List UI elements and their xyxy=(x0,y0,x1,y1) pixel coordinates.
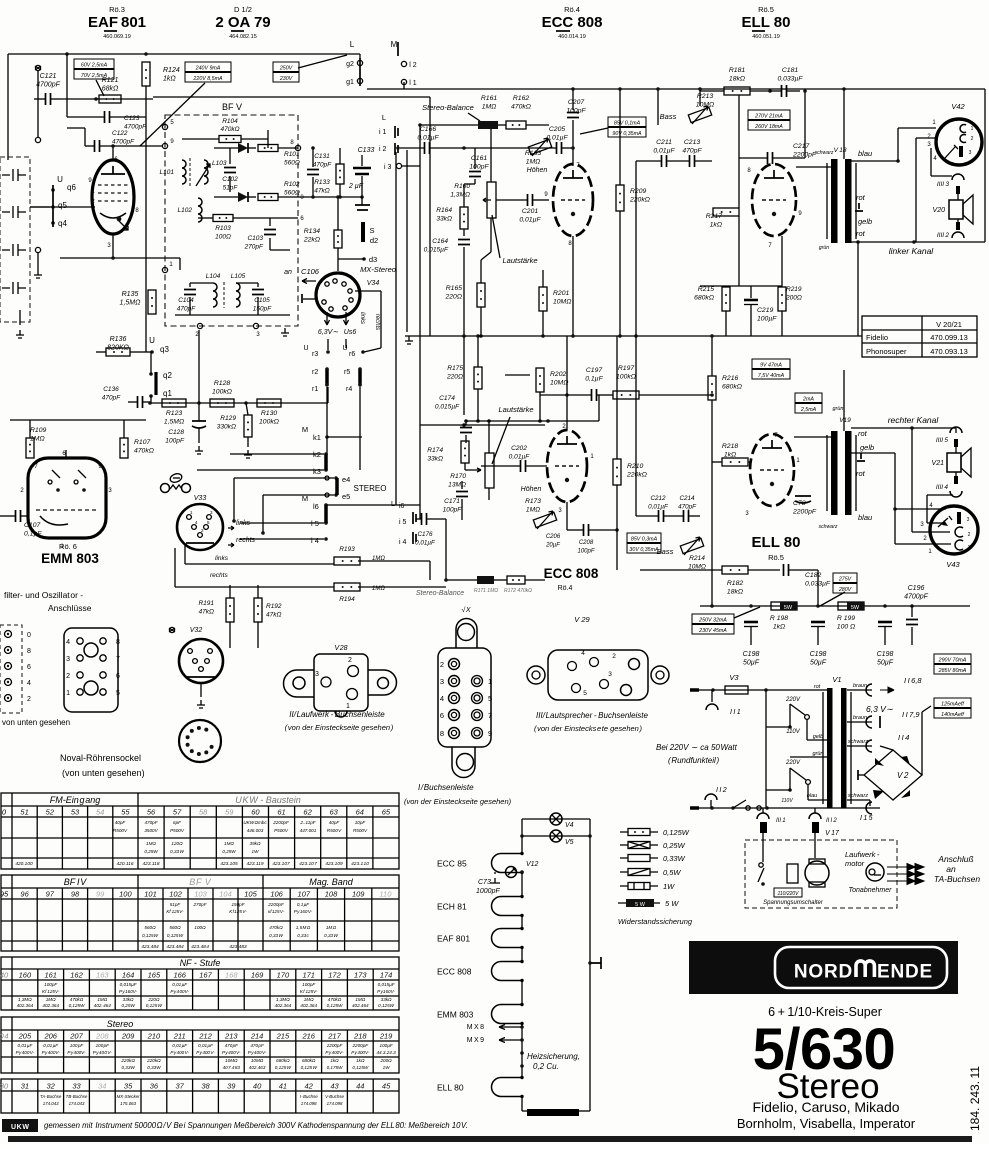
wire i2 drop xyxy=(406,150,408,332)
junction xyxy=(520,834,524,838)
svg-text:q2: q2 xyxy=(163,371,172,380)
svg-text:filter- und Oszillat or -: filter- und Oszillat or - xyxy=(4,590,83,600)
wire xyxy=(738,285,740,287)
annotation 85V/30V xyxy=(627,533,661,543)
wire xyxy=(128,401,137,403)
wire xyxy=(461,481,463,489)
wire xyxy=(789,768,791,790)
wire xyxy=(355,290,381,292)
svg-text:39: 39 xyxy=(227,1082,236,1091)
svg-text:3: 3 xyxy=(66,656,70,663)
heater loop EAF 801 xyxy=(492,929,523,948)
wire xyxy=(498,124,506,126)
svg-text:174.098: 174.098 xyxy=(327,1101,343,1106)
svg-text:B F V: B F V xyxy=(189,877,212,887)
junction xyxy=(197,401,201,405)
svg-text:169: 169 xyxy=(251,971,264,980)
coil xyxy=(213,283,217,307)
junction xyxy=(325,367,329,371)
wire xyxy=(667,160,689,162)
svg-text:D 1/2: D 1/2 xyxy=(234,5,252,14)
svg-text:0,01µF: 0,01µF xyxy=(415,540,436,547)
svg-text:e4: e4 xyxy=(342,475,350,484)
svg-text:210: 210 xyxy=(147,1032,161,1041)
svg-text:0,125 W: 0,125 W xyxy=(146,1003,163,1008)
svg-text:C198: C198 xyxy=(810,651,827,658)
wire xyxy=(700,90,724,92)
svg-text:40: 40 xyxy=(0,971,9,980)
ground xyxy=(281,328,289,336)
svg-text:P y 400V-: P y 400V- xyxy=(351,1050,370,1055)
svg-text:2200pF: 2200pF xyxy=(272,820,290,825)
svg-text:R171 1MΩ: R171 1MΩ xyxy=(474,588,498,594)
svg-text:I - Buchse: I - Buchse xyxy=(300,1094,319,1099)
wire xyxy=(270,249,290,251)
wire xyxy=(100,145,162,147)
svg-text:6pF: 6pF xyxy=(173,820,182,825)
wire top supply bus xyxy=(8,53,360,55)
wire xyxy=(955,428,957,433)
wire xyxy=(257,622,259,648)
svg-text:l 2: l 2 xyxy=(409,62,417,69)
svg-text:57: 57 xyxy=(173,808,182,817)
wire xyxy=(579,1110,590,1112)
svg-text:1: 1 xyxy=(971,126,974,132)
wire to r1 xyxy=(327,387,329,403)
resistor R103 xyxy=(213,215,233,222)
svg-text:rot: rot xyxy=(856,469,866,478)
capacitor C198a xyxy=(744,622,758,627)
wire xyxy=(858,774,864,776)
svg-text:V 20/21: V 20/21 xyxy=(936,320,962,329)
svg-text:(von unten gesehen): (von unten gesehen) xyxy=(62,768,145,778)
svg-text:460.014.19: 460.014.19 xyxy=(558,34,586,40)
wire xyxy=(636,160,661,162)
lamp V4 xyxy=(550,813,562,825)
svg-text:220Ω: 220Ω xyxy=(444,294,462,301)
svg-text:30V 0,35mA: 30V 0,35mA xyxy=(629,547,659,553)
wire xyxy=(739,157,767,159)
svg-text:R201: R201 xyxy=(553,290,569,297)
wire xyxy=(19,310,21,325)
svg-text:402.364: 402.364 xyxy=(275,1003,292,1008)
svg-text:0,01µF: 0,01µF xyxy=(653,148,675,155)
svg-text:L104: L104 xyxy=(206,273,221,280)
svg-text:219: 219 xyxy=(379,1032,393,1041)
svg-text:1MΩ: 1MΩ xyxy=(482,104,497,111)
annotation 9V xyxy=(752,359,790,369)
junction xyxy=(261,531,265,535)
wire xyxy=(525,579,545,581)
svg-text:680kΩ: 680kΩ xyxy=(276,1058,290,1063)
svg-text:31: 31 xyxy=(21,1082,29,1091)
svg-text:37: 37 xyxy=(176,1082,185,1091)
svg-text:53: 53 xyxy=(71,808,80,817)
tube EMM803 Rö.6 xyxy=(28,458,106,538)
svg-text:0,125W: 0,125W xyxy=(352,1065,368,1070)
wire xyxy=(278,196,298,198)
junction xyxy=(244,401,248,405)
svg-text:0,33 W: 0,33 W xyxy=(324,933,338,938)
wire xyxy=(897,128,899,161)
wire xyxy=(619,211,621,336)
wire xyxy=(200,683,202,697)
svg-text:0,01 µF: 0,01 µF xyxy=(18,1043,34,1048)
resistor R102 xyxy=(258,194,278,201)
contact bar e4-e5 xyxy=(325,476,329,480)
svg-text:L: L xyxy=(350,40,355,49)
wire xyxy=(303,298,317,300)
wire xyxy=(911,627,913,645)
wire pin2 drop xyxy=(198,330,200,403)
svg-text:C212: C212 xyxy=(650,495,666,502)
junction xyxy=(571,87,575,91)
svg-text:P y 160 V-: P y 160 V- xyxy=(294,909,313,914)
svg-text:V5: V5 xyxy=(565,839,574,846)
wire xyxy=(214,147,238,149)
svg-text:2: 2 xyxy=(348,657,352,664)
wire xyxy=(257,297,259,315)
svg-text:I I 6,8: I I 6,8 xyxy=(904,676,922,685)
svg-text:460.069.19: 460.069.19 xyxy=(103,34,131,40)
svg-text:0,125 W: 0,125 W xyxy=(167,933,184,938)
wire xyxy=(463,184,465,207)
wire xyxy=(635,336,637,516)
svg-text:220V 8,5mA: 220V 8,5mA xyxy=(192,76,223,82)
switch mains xyxy=(746,806,750,810)
wire heater right rail xyxy=(589,819,591,1111)
svg-text:213: 213 xyxy=(224,1032,238,1041)
svg-text:680kΩ: 680kΩ xyxy=(722,384,742,391)
wire xyxy=(51,98,60,100)
svg-text:2200pF: 2200pF xyxy=(267,902,285,907)
svg-text:0,25W: 0,25W xyxy=(144,849,158,854)
wire xyxy=(762,808,764,813)
svg-text:1MΩ: 1MΩ xyxy=(97,997,107,1002)
svg-text:V-Buchse: V-Buchse xyxy=(325,1094,344,1099)
svg-text:230V: 230V xyxy=(279,76,293,82)
junction xyxy=(520,870,524,874)
svg-text:k3: k3 xyxy=(313,467,321,476)
svg-text:423.484: 423.484 xyxy=(141,944,159,950)
junction xyxy=(111,256,115,260)
junction xyxy=(910,426,914,430)
svg-text:50µF: 50µF xyxy=(743,660,760,667)
svg-text:r1: r1 xyxy=(312,386,318,393)
svg-text:U: U xyxy=(303,345,308,352)
svg-text:217: 217 xyxy=(327,1032,341,1041)
wire xyxy=(748,569,780,571)
svg-text:P y 4 00V-: P y 4 00V- xyxy=(170,989,189,994)
wire q chain xyxy=(150,352,152,374)
svg-text:106: 106 xyxy=(270,890,283,899)
svg-text:R161: R161 xyxy=(481,95,497,102)
wire xyxy=(123,420,125,438)
svg-text:Stereo-Balance: Stereo-Balance xyxy=(422,103,474,112)
svg-text:Rö.4: Rö.4 xyxy=(558,585,573,592)
wire xyxy=(817,570,819,606)
wire xyxy=(466,420,599,422)
svg-text:C107: C107 xyxy=(24,522,40,529)
wire xyxy=(474,148,476,169)
svg-text:3: 3 xyxy=(440,677,444,686)
svg-text:1MΩ: 1MΩ xyxy=(46,997,56,1002)
junction xyxy=(634,334,638,338)
svg-text:( Rundfunkteil ): ( Rundfunkteil ) xyxy=(668,756,719,765)
svg-text:C104: C104 xyxy=(178,297,194,304)
wire xyxy=(567,529,583,531)
wire xyxy=(85,145,94,147)
svg-text:270pF: 270pF xyxy=(192,902,207,907)
capacitor C104 xyxy=(184,290,196,295)
svg-text:216: 216 xyxy=(301,1032,315,1041)
svg-text:41: 41 xyxy=(279,1082,287,1091)
wire xyxy=(96,351,106,353)
wire into V17 xyxy=(762,833,764,862)
capacitor C176 xyxy=(422,513,427,525)
svg-text:0,1 µF: 0,1 µF xyxy=(297,902,310,907)
junction xyxy=(444,578,448,582)
svg-text:2..11pF: 2..11pF xyxy=(299,820,316,825)
heater loop ECH 81 xyxy=(492,897,523,916)
terminal g2 xyxy=(357,60,362,65)
svg-text:100µF: 100µF xyxy=(757,316,777,323)
wire xyxy=(361,176,363,197)
svg-text:10MΩ: 10MΩ xyxy=(696,102,714,109)
svg-text:6,3 V∼: 6,3 V∼ xyxy=(866,704,894,714)
svg-text:0,125W: 0,125W xyxy=(663,828,690,837)
svg-text:10pF: 10pF xyxy=(355,820,367,825)
svg-text:Bornholm, Visabella, Imperator: Bornholm, Visabella, Imperator xyxy=(737,1116,916,1131)
svg-text:470.099.13: 470.099.13 xyxy=(930,333,968,342)
capacitor C102 xyxy=(224,168,236,173)
svg-text:R182: R182 xyxy=(727,580,743,587)
wire xyxy=(463,229,465,236)
svg-text:0,125W: 0,125W xyxy=(378,1003,394,1008)
wire in-box bottom xyxy=(175,314,290,316)
junction xyxy=(788,788,792,792)
wire xyxy=(248,147,256,149)
junction xyxy=(618,334,622,338)
wire xyxy=(233,478,235,521)
svg-text:R 199: R 199 xyxy=(837,615,855,622)
wire xyxy=(477,389,479,421)
svg-text:an: an xyxy=(284,269,292,276)
svg-text:4: 4 xyxy=(66,639,70,646)
svg-text:52: 52 xyxy=(46,808,55,817)
wire xyxy=(358,586,446,588)
svg-text:L: L xyxy=(382,113,386,122)
svg-text:IIII 3: IIII 3 xyxy=(937,181,950,188)
svg-text:402.464: 402.464 xyxy=(352,1003,369,1008)
junction xyxy=(462,146,466,150)
svg-text:schwarz: schwarz xyxy=(814,150,833,156)
wire xyxy=(29,420,31,438)
wire q1 bus xyxy=(151,402,328,404)
svg-text:13MΩ: 13MΩ xyxy=(448,482,466,489)
wire xyxy=(750,286,752,298)
junction xyxy=(565,393,569,397)
svg-text:220Ω: 220Ω xyxy=(446,374,463,381)
junction xyxy=(520,1064,524,1068)
svg-text:Fidelio, Caruso, Mikado: Fidelio, Caruso, Mikado xyxy=(752,1099,899,1115)
svg-text:K f 125 V-: K f 125 V- xyxy=(229,909,247,914)
wire xyxy=(817,627,819,645)
svg-text:R124: R124 xyxy=(163,67,180,74)
capacitor C107 xyxy=(16,510,21,522)
svg-text:5: 5 xyxy=(488,694,492,703)
svg-text:100pF: 100pF xyxy=(566,108,586,115)
svg-text:Höhen: Höhen xyxy=(527,167,548,174)
svg-text:0,01µF: 0,01µF xyxy=(509,454,531,461)
ground xyxy=(405,336,413,344)
junction xyxy=(360,195,364,199)
wire xyxy=(542,369,544,371)
junction xyxy=(910,604,914,608)
wire xyxy=(361,155,363,166)
annotation 60V/70V xyxy=(74,59,114,69)
table NF-Stufe xyxy=(1,957,399,1010)
wire into V17 xyxy=(814,833,816,858)
svg-text:470pF: 470pF xyxy=(144,820,158,825)
wire xyxy=(298,196,363,198)
resistor R201 xyxy=(539,287,547,311)
jack III/2 xyxy=(956,222,960,230)
wire xyxy=(657,89,659,125)
svg-text:47kΩ: 47kΩ xyxy=(314,188,329,195)
wire anode drop xyxy=(429,97,431,336)
jack I/1 xyxy=(706,704,718,710)
wire blau xyxy=(851,160,898,162)
svg-text:R174: R174 xyxy=(427,447,443,454)
wire xyxy=(427,518,446,520)
fuse 5W left xyxy=(771,602,797,610)
svg-text:100 Ω: 100 Ω xyxy=(837,624,855,631)
wire anode feed left xyxy=(60,98,153,100)
svg-text:54: 54 xyxy=(96,808,104,817)
svg-text:r3: r3 xyxy=(312,351,318,358)
switch S d2 xyxy=(361,222,365,242)
tube ELL80 left channel xyxy=(752,164,796,236)
svg-text:R162: R162 xyxy=(513,95,529,102)
svg-text:55: 55 xyxy=(121,808,130,817)
heater tap ECC808 xyxy=(590,957,601,969)
svg-text:P y 400 V-: P y 400 V- xyxy=(16,1050,35,1055)
svg-text:C182: C182 xyxy=(805,572,821,579)
svg-text:1MΩ: 1MΩ xyxy=(146,841,156,846)
svg-text:447.001: 447.001 xyxy=(300,828,317,833)
svg-text:√ X: √ X xyxy=(461,606,470,614)
svg-text:58: 58 xyxy=(199,808,208,817)
svg-text:100pF: 100pF xyxy=(165,438,185,445)
svg-text:EMM 803: EMM 803 xyxy=(41,551,99,566)
wire tap blau xyxy=(808,799,827,801)
svg-text:35: 35 xyxy=(124,1082,133,1091)
svg-text:470pF: 470pF xyxy=(177,306,196,313)
svg-text:R102: R102 xyxy=(284,181,300,188)
svg-text:100pF: 100pF xyxy=(577,549,594,555)
wire heater left rail xyxy=(521,819,523,854)
svg-text:ECH 81: ECH 81 xyxy=(437,902,467,912)
capacitor C122 xyxy=(95,140,100,152)
svg-text:Tonabnehmer: Tonabnehmer xyxy=(849,887,893,894)
wire middle bus xyxy=(405,335,862,337)
logo NORDMENDE xyxy=(689,941,958,994)
svg-text:2: 2 xyxy=(27,696,31,703)
svg-text:V43: V43 xyxy=(946,560,960,569)
svg-text:k1: k1 xyxy=(313,433,321,442)
svg-text:gemessen mit Instrument 50: gemessen mit Instrument 50000 Ω / V Be i… xyxy=(44,1121,468,1130)
svg-text:I I 1: I I 1 xyxy=(730,709,741,716)
capacitor C103 xyxy=(264,230,276,235)
svg-text:gelb: gelb xyxy=(858,217,872,226)
svg-text:C166: C166 xyxy=(420,126,436,133)
svg-text:250V 32mA: 250V 32mA xyxy=(698,617,727,623)
wire xyxy=(955,447,957,453)
svg-text:C106: C106 xyxy=(301,267,320,276)
svg-text:R 198: R 198 xyxy=(770,615,788,622)
svg-text:5 W: 5 W xyxy=(665,899,679,908)
svg-text:61: 61 xyxy=(277,808,285,817)
wire xyxy=(345,339,347,348)
wire xyxy=(358,560,430,562)
svg-text:C214: C214 xyxy=(679,495,695,502)
svg-text:q6: q6 xyxy=(67,183,76,192)
svg-text:STEREO: STEREO xyxy=(354,484,387,493)
svg-text:i 4: i 4 xyxy=(399,539,407,546)
svg-text:0,5W: 0,5W xyxy=(663,868,681,877)
svg-text:163: 163 xyxy=(96,971,109,980)
terminal xyxy=(35,65,40,70)
junction xyxy=(816,604,820,608)
svg-text:links: links xyxy=(215,555,229,562)
wire lower row xyxy=(420,424,545,426)
wire heater left rail xyxy=(521,916,523,929)
svg-text:10MΩ: 10MΩ xyxy=(251,1058,264,1063)
svg-text:3500V: 3500V xyxy=(144,828,158,833)
svg-text:100pF: 100pF xyxy=(44,982,58,987)
switch Spannungsumschalter xyxy=(759,863,763,867)
svg-text:460.051.19: 460.051.19 xyxy=(752,34,780,40)
junction xyxy=(144,52,148,56)
wire diagonal to bus xyxy=(298,55,347,68)
svg-text:680kΩ: 680kΩ xyxy=(694,295,714,302)
svg-text:0,1µF: 0,1µF xyxy=(24,531,42,538)
coil xyxy=(204,160,208,184)
junction xyxy=(764,688,768,692)
tape head symbol xyxy=(161,472,191,492)
svg-text:r4: r4 xyxy=(346,386,352,393)
junction xyxy=(588,961,592,965)
wire xyxy=(29,457,31,459)
wire R124 down xyxy=(145,86,147,310)
wire xyxy=(789,704,791,727)
jack III/3 xyxy=(952,174,964,180)
svg-text:172: 172 xyxy=(328,971,341,980)
svg-text:560Ω: 560Ω xyxy=(284,160,300,167)
svg-text:4700pF: 4700pF xyxy=(112,139,135,146)
svg-text:0,33 ϲ: 0,33 ϲ xyxy=(297,933,309,938)
pickup Tonabnehmer xyxy=(866,863,884,881)
junction xyxy=(761,882,765,886)
svg-text:(von der Einsteckseite gesehen: (von der Einsteckseite gesehen) xyxy=(404,797,512,806)
svg-text:206: 206 xyxy=(43,1032,57,1041)
svg-text:R216: R216 xyxy=(722,375,738,382)
svg-text:d3: d3 xyxy=(369,255,377,264)
wire xyxy=(198,428,200,443)
wire xyxy=(847,799,870,801)
svg-text:423.119: 423.119 xyxy=(247,861,264,867)
